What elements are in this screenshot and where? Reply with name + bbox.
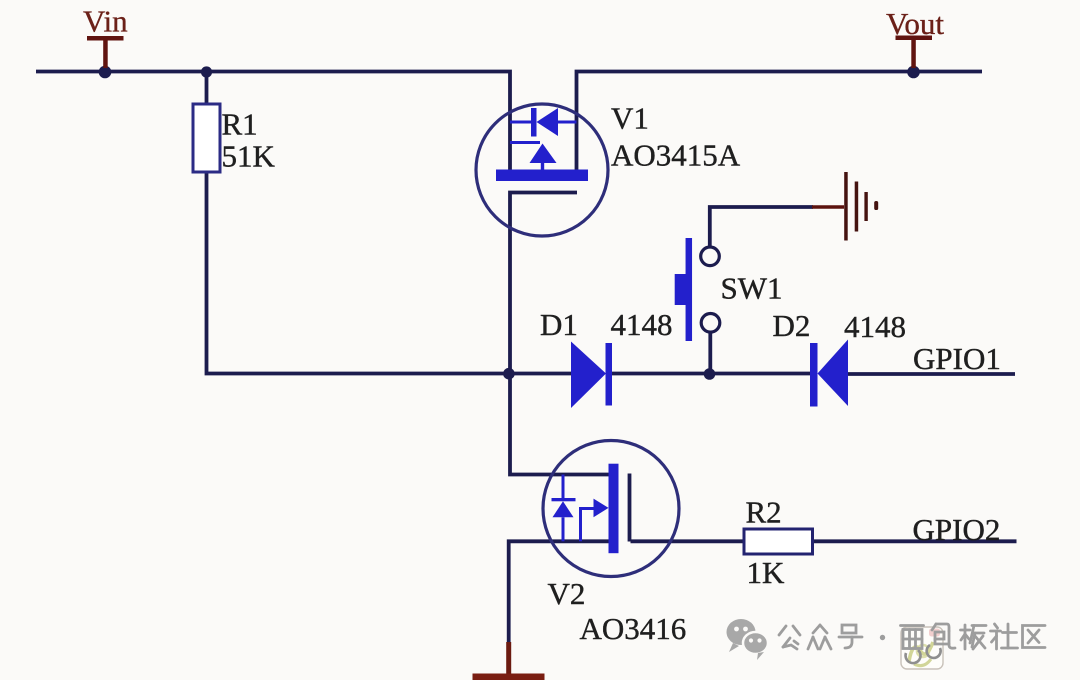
svg-text:SW1: SW1 <box>721 271 783 306</box>
svg-text:R2: R2 <box>746 495 782 530</box>
svg-text:AO3415A: AO3415A <box>611 138 741 173</box>
svg-text:V1: V1 <box>611 101 649 136</box>
svg-text:R1: R1 <box>222 107 258 142</box>
svg-text:AO3416: AO3416 <box>580 611 687 646</box>
svg-text:51K: 51K <box>222 139 276 174</box>
svg-text:GPIO1: GPIO1 <box>913 341 1001 376</box>
svg-text:4148: 4148 <box>611 307 673 342</box>
svg-text:Vin: Vin <box>83 4 128 39</box>
svg-text:D2: D2 <box>773 308 811 343</box>
svg-text:V2: V2 <box>548 576 586 611</box>
svg-text:1K: 1K <box>747 555 786 590</box>
svg-text:GPIO2: GPIO2 <box>913 512 1001 547</box>
svg-text:4148: 4148 <box>844 309 906 344</box>
svg-text:D1: D1 <box>540 307 578 342</box>
